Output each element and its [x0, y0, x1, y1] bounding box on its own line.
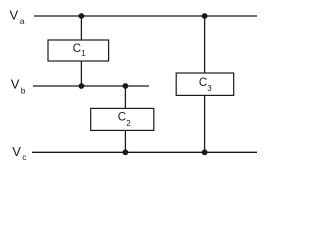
svg-text:V: V	[10, 8, 19, 23]
node Vb label	[11, 77, 26, 96]
junction dot Vc/C2	[123, 149, 129, 155]
svg-text:3: 3	[207, 84, 212, 93]
wire C3 top	[204, 16, 206, 73]
svg-text:a: a	[20, 16, 25, 26]
svg-text:V: V	[12, 144, 21, 159]
junction dot Va/C1	[79, 13, 85, 19]
junction dot Vb/C2	[123, 83, 129, 89]
svg-text:b: b	[21, 85, 26, 95]
wire C2 top	[124, 86, 126, 108]
capacitor C1	[48, 40, 109, 61]
capacitor C3	[176, 73, 234, 95]
svg-text:C: C	[73, 43, 81, 55]
junction dot Va/C3	[202, 13, 208, 19]
wire C3 bottom	[204, 95, 206, 152]
node Va label	[10, 8, 25, 26]
wire Vb rail	[33, 85, 149, 87]
wire C1 bottom	[80, 61, 82, 86]
svg-text:2: 2	[126, 119, 131, 128]
wire Va rail	[34, 15, 257, 17]
svg-text:C: C	[199, 77, 207, 89]
svg-text:1: 1	[81, 49, 86, 58]
junction dot Vc/C3	[202, 149, 208, 155]
junction dot Vb/C1	[79, 83, 85, 89]
svg-text:C: C	[118, 112, 126, 124]
wire C2 bottom	[124, 130, 126, 152]
svg-text:V: V	[11, 77, 20, 92]
svg-text:c: c	[22, 152, 27, 162]
node Vc label	[12, 144, 27, 162]
capacitor C2	[91, 108, 154, 130]
wire Vc rail	[32, 151, 257, 153]
wire C1 top	[80, 16, 82, 40]
